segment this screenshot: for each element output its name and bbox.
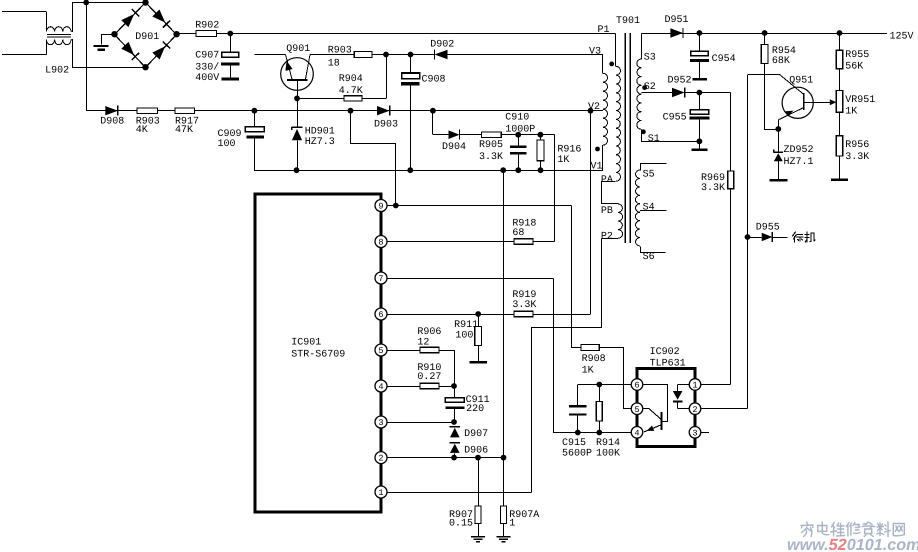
svg-text:D901: D901 [135,32,159,43]
svg-text:3: 3 [692,428,697,438]
svg-text:C955: C955 [663,112,687,123]
svg-text:100: 100 [455,331,473,342]
svg-text:1: 1 [692,381,697,391]
svg-text:68K: 68K [772,56,790,67]
svg-text:3.3K: 3.3K [701,183,725,194]
svg-text:5: 5 [378,346,383,356]
svg-text:C910: C910 [505,113,529,124]
svg-text:R955: R955 [845,50,869,61]
svg-text:T901: T901 [616,16,640,27]
svg-text:18: 18 [328,58,340,69]
svg-text:3.3K: 3.3K [845,152,869,163]
svg-text:68: 68 [512,228,524,239]
svg-text:2: 2 [692,405,697,415]
svg-text:S5: S5 [643,170,655,181]
svg-text:S3: S3 [644,52,656,63]
svg-text:3: 3 [378,418,383,428]
svg-text:4: 4 [634,428,639,438]
svg-text:P2: P2 [601,231,613,242]
svg-text:12: 12 [417,337,429,348]
svg-text:4.7K: 4.7K [339,86,363,97]
svg-text:1: 1 [378,488,383,498]
svg-text:3.3K: 3.3K [479,152,503,163]
svg-text:D903: D903 [374,120,398,131]
svg-text:R903: R903 [328,45,352,56]
svg-text:100: 100 [218,139,236,150]
svg-text:R905: R905 [479,140,503,151]
svg-text:V1: V1 [591,162,603,173]
svg-text:Q951: Q951 [789,76,813,87]
svg-text:D902: D902 [430,40,454,51]
svg-text:V3: V3 [589,47,601,58]
svg-text:3.3K: 3.3K [512,300,536,311]
svg-text:IC902: IC902 [650,347,680,358]
svg-text:R916: R916 [557,144,581,155]
svg-text:S2: S2 [644,82,656,93]
svg-text:ZD952: ZD952 [784,145,814,156]
svg-text:5: 5 [634,405,639,415]
svg-text:C907: C907 [195,51,219,62]
svg-text:6: 6 [634,381,639,391]
svg-text:1K: 1K [845,106,857,117]
svg-text:V2: V2 [588,102,600,113]
svg-text:VR951: VR951 [845,95,875,106]
svg-text:1K: 1K [582,366,594,377]
svg-text:1: 1 [509,519,515,530]
svg-text:HZ7.1: HZ7.1 [784,157,814,168]
svg-text:IC901: IC901 [291,338,321,349]
svg-text:R914: R914 [596,438,620,449]
svg-text:400V: 400V [195,73,219,84]
svg-text:220: 220 [466,404,484,415]
svg-text:4K: 4K [136,125,148,136]
svg-text:0.27: 0.27 [417,372,441,383]
svg-text:C954: C954 [712,54,736,65]
svg-text:D904: D904 [442,142,466,153]
svg-text:R902: R902 [195,20,219,31]
svg-text:S6: S6 [643,252,655,263]
svg-text:125V: 125V [890,31,914,42]
svg-text:HZ7.3: HZ7.3 [305,137,335,148]
svg-text:47K: 47K [175,125,193,136]
svg-text:D907: D907 [464,429,488,440]
svg-text:1000P: 1000P [505,125,535,136]
svg-text:1K: 1K [557,155,569,166]
svg-text:D952: D952 [668,76,692,87]
svg-text:6: 6 [378,310,383,320]
svg-text:Q901: Q901 [286,44,310,55]
svg-text:2: 2 [378,454,383,464]
svg-text:D955: D955 [756,223,780,234]
svg-text:TLP631: TLP631 [650,359,686,370]
svg-text:9: 9 [378,202,383,212]
svg-text:PA: PA [601,175,613,186]
svg-text:P1: P1 [598,25,610,36]
svg-text:S4: S4 [643,202,655,213]
svg-text:8: 8 [378,238,383,248]
svg-text:C908: C908 [422,75,446,86]
svg-text:www.520101.com: www.520101.com [787,536,918,552]
svg-text:L902: L902 [45,66,69,77]
svg-text:4: 4 [378,382,383,392]
svg-text:7: 7 [378,274,383,284]
svg-text:D908: D908 [100,116,124,127]
svg-text:C915: C915 [562,438,586,449]
svg-text:R904: R904 [339,74,363,85]
svg-text:5600P: 5600P [562,449,592,460]
svg-text:R908: R908 [582,354,606,365]
svg-text:0.15: 0.15 [449,519,473,530]
svg-text:330/: 330/ [195,61,219,73]
svg-text:S1: S1 [648,134,660,145]
svg-text:100K: 100K [596,449,620,460]
svg-text:PB: PB [601,206,613,217]
svg-text:HD901: HD901 [305,126,335,137]
svg-text:R956: R956 [845,140,869,151]
svg-text:D951: D951 [665,15,689,26]
svg-text:56K: 56K [845,61,863,72]
svg-text:D906: D906 [464,445,488,456]
svg-text:STR-S6709: STR-S6709 [291,350,345,361]
